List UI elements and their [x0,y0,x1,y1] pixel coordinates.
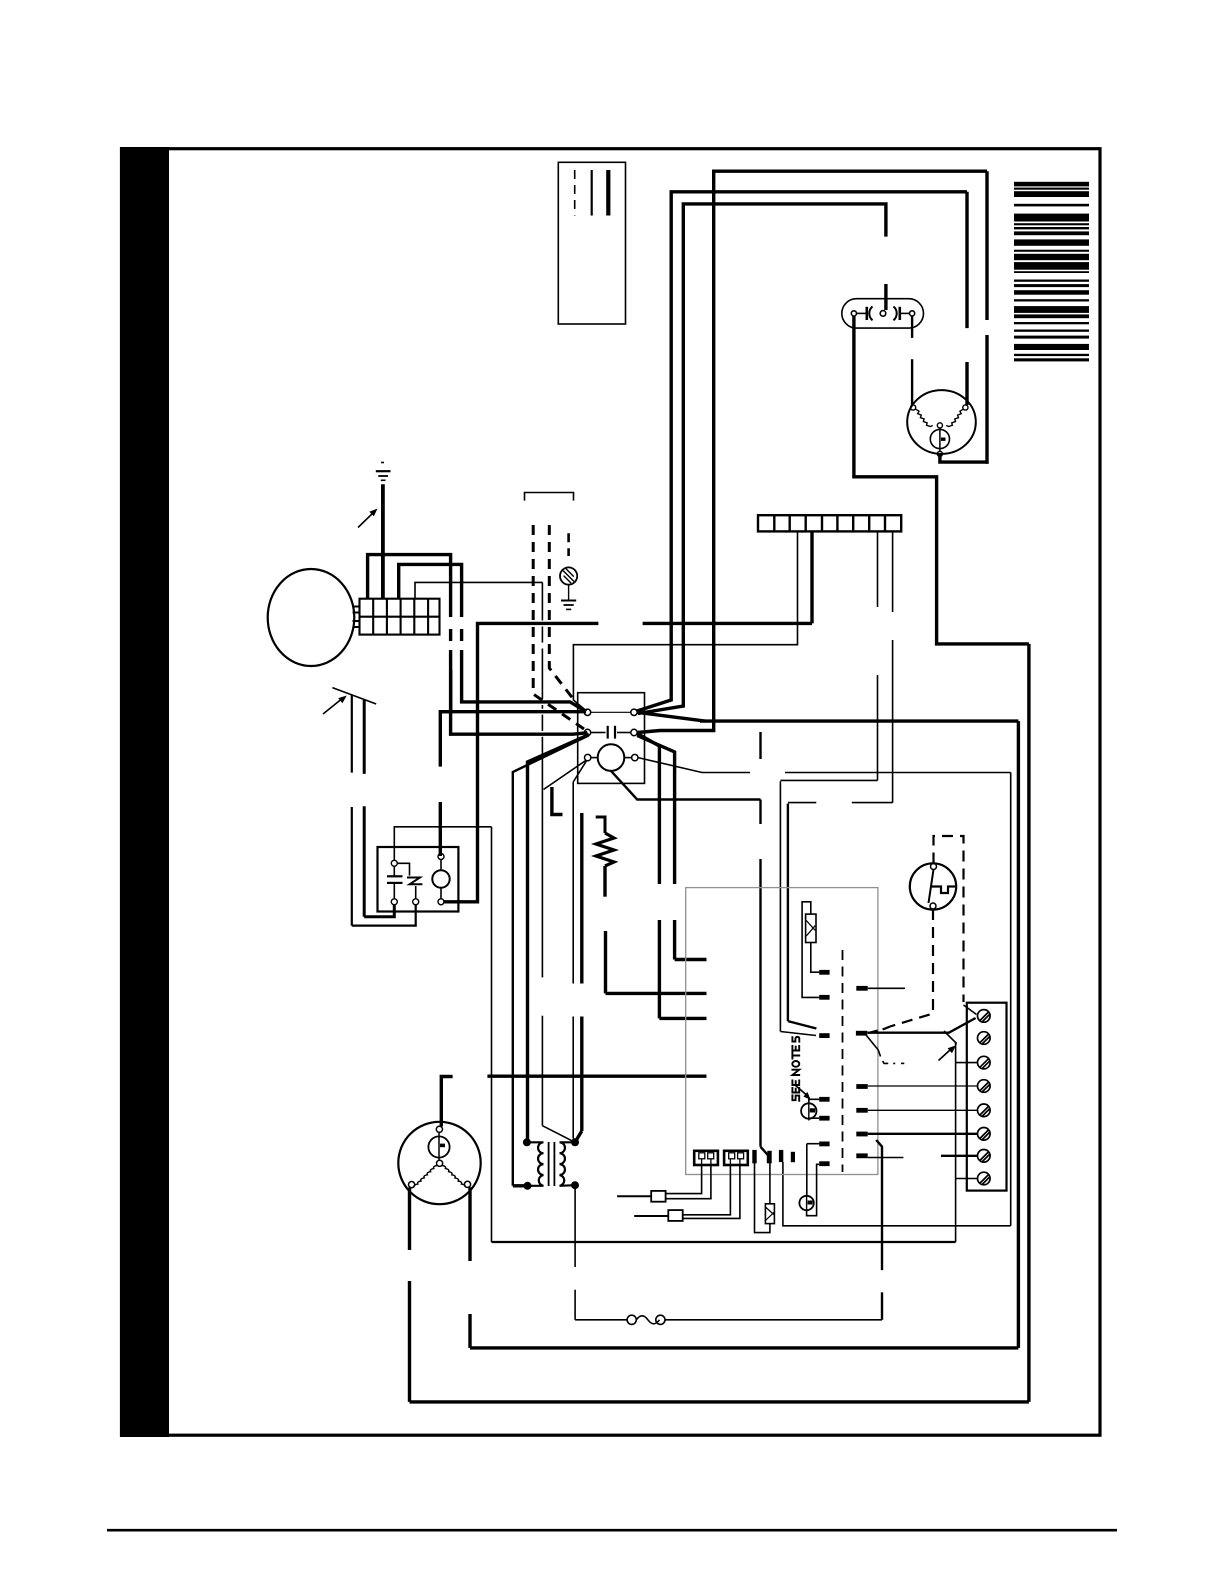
field wire pair down to fan relay [352,695,364,926]
quick-connect plug QC2 [634,1210,683,1221]
status LED2 [799,1195,813,1212]
wire L1 hub to capacitor-bracket right leg [637,192,967,711]
blower fan motor FM (large circle) [268,569,360,666]
M2 left lead wire [410,1188,1029,1402]
fuse F1 wiring loop [802,902,819,998]
field wiring dashed lead 2 into hub row1 [549,525,584,714]
status LED1 [801,1102,816,1121]
arrow SEE NOTE 5 to LED [795,1085,811,1100]
hub row2 left thick feeders down [528,735,590,1143]
ground lead wire [381,484,385,598]
wire thin feeder diagonal into transformer top-right [575,813,582,1142]
fan motor terminal board grid (6x2) [360,599,440,635]
legend thick solid line (line voltage) [606,170,610,216]
M2 right lead wire [468,1187,471,1348]
hub row3 pins and lamp circle [585,744,639,771]
transformer junction dots [523,1138,579,1190]
feeder to transformer bottom-left [513,736,589,1186]
legend dashed line (field wiring) [574,170,576,216]
sheet border frame [122,149,1101,1436]
wire pin row to terminal screw1 [868,1018,976,1033]
ground symbol G1 above fan terminal board [376,463,391,481]
terminal screws (8) [978,1010,991,1185]
thin diagonal from pin to dash-dot elbow [866,1035,904,1063]
transformer TR core [549,1142,555,1186]
board main feed wire down the middle [611,732,768,1163]
barcode label [1014,182,1089,362]
hub row1 pins and link [584,709,637,715]
ground symbol G2 [561,585,576,610]
M2 internal thermal protector [428,1132,449,1160]
board bottom pin bars [752,1150,795,1164]
wire riser to screw3 and screw8 [956,1043,978,1242]
wire MV relay to terminal block screw3 (thin) [394,827,491,1242]
resistor R1 lower lead into board [606,931,707,993]
board feed pair thin+thick [780,781,816,1035]
wire bottom run to terminal riser [492,1241,956,1243]
board pin bars outer column B [856,986,868,1158]
pressure switch dashed harness [890,836,964,1027]
M2 windings [414,1166,465,1187]
wire L2 hub to capacitor center via top [638,204,886,714]
dash lead into board pin [867,1027,890,1034]
arrow pointing at terminal lead [939,1045,956,1060]
arrow pointing to field wiring [323,696,347,715]
wire J1 to quick-connect plug QC1 [666,1165,711,1199]
thermostat wires to screws 4-7 [868,1086,978,1156]
wire grid-B to hub row1 left [399,564,586,711]
wire grid-C thin to transformer top-right [415,582,573,1141]
relay coil circle [432,854,449,905]
field wiring bracket (low voltage entry) [525,493,574,501]
relay bottom-left pin field wire [364,905,394,917]
footer rule line [107,1529,1117,1532]
fan relay box RB [378,847,459,912]
control board outline [686,888,878,1175]
resistor R1 [596,817,614,897]
hub row2 right diagonals to mid feeders [637,734,706,1019]
small stub wire near hub bottom [552,787,563,815]
chassis ground lug (hatched circle) [560,533,577,584]
wire transformer secondary bottom drop [574,1185,576,1320]
fuse F2 wiring loop [755,1163,770,1232]
relay capacitor C2 [387,860,403,905]
drawing sheet black margin bar [120,147,169,1437]
wire L3 hub to blower motor loop [638,171,989,732]
inducer motor M2 [398,1122,480,1204]
wire terminal strip cell3 to hub left (thin) [573,531,797,711]
wire grid-A to hub row2 left [368,555,588,735]
transformer primary coil [528,1142,544,1186]
fuse F1 on board [806,914,816,942]
diagonal pair to screw1 [944,1005,977,1043]
hub row3 right thin lead long run [638,758,1011,1226]
transformer secondary coil [560,1142,576,1186]
connector hub plug box P1 [578,693,645,784]
board pin bars right column A [819,970,829,1166]
second mid feeder to board stub [637,736,706,960]
low voltage fuse (inline) [575,1315,882,1324]
legend thin solid line (low voltage) [591,170,593,216]
LED2 loop wires [807,1144,820,1216]
arrow pointing to ground lead [358,509,378,528]
wire branch y712 to hub row1 and down to relay coil [439,670,586,856]
fan terminal strip TS (9 cells) [758,515,901,531]
board right-edge drop wire to low-voltage fuse line [876,1140,882,1320]
induced draft blower motor M1 [907,390,976,456]
molex connector J2 [724,1151,748,1165]
wire capacitor right pin to motor M1 top-left pin [911,316,913,405]
fuse F2 below board [765,1204,774,1224]
M2 top lead [441,1077,452,1127]
long feed wire into control board at y1076 [487,1074,706,1077]
wire hub row2 right to right-side drop (thick) [470,721,1018,1348]
molex connector J1 [694,1151,718,1165]
relay bottom-middle pin field wire [352,905,416,926]
board internal dashed line [842,950,844,1172]
relay switch contact (Z) [397,863,422,905]
wire J2 to quick-connect plug QC2 [683,1165,740,1218]
LED1 loop wires [809,1099,819,1118]
run capacitor CAP (3-terminal) [842,299,924,328]
quick-connect plug QC1 [617,1191,666,1202]
thin feeder to transformer top-right [573,782,575,1141]
field wiring slash symbol [332,688,376,704]
hub row3 left thin leads to transformer feeders [544,760,587,789]
wire stub strip cell9 down [788,531,893,802]
field wiring dashed lead 1 into hub row2 [533,525,584,729]
wire capacitor left pin long run to right side [854,316,1029,1402]
wire relay coil bottom to terminal strip (thick) [444,531,812,901]
legend box (line-type key) [558,162,625,324]
hub row1 right fan to top wires [637,712,705,721]
wire stub strip cell8 down [780,531,877,780]
hub row2 pins and capacitor symbol [584,726,637,739]
thermostat terminal block TB [967,1003,1007,1191]
board pinB stub wire right [868,988,905,1157]
SEE NOTE 5 label [792,1037,799,1101]
pressure switch PS [910,863,956,909]
